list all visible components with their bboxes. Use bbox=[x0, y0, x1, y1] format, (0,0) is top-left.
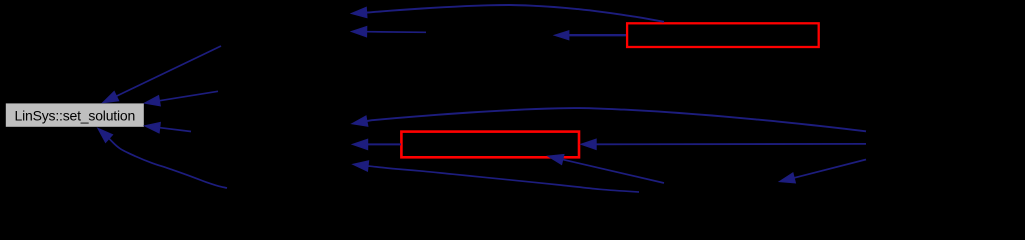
edge H: from red node 2 to middle node bbox=[352, 139, 401, 150]
svg-text:LinSys::set_solution: LinSys::set_solution bbox=[15, 108, 136, 124]
edge K: into red node 2 bottom edge bbox=[548, 154, 665, 183]
red highlighted caller node box 2 bbox=[401, 132, 579, 158]
edge J: from far-right caller into red node 2 bbox=[581, 139, 867, 150]
edge F: short edge to middle-top caller node bbox=[351, 26, 426, 37]
edge G: long arc from far-right caller to middle node bbox=[352, 108, 867, 131]
edge B: caller into LinSys::set_solution top-right corner bbox=[144, 91, 218, 106]
edge C: caller into LinSys::set_solution right edge bbox=[144, 122, 191, 133]
node: LinSys::set_solution (current node, gray) bbox=[6, 103, 144, 126]
edge E: arc from red node 1 to middle caller node bbox=[351, 5, 664, 22]
edge K2: from far-right caller into bottom node bbox=[779, 160, 866, 184]
edge D: caller into LinSys::set_solution bottom edge bbox=[98, 128, 228, 188]
edge I: from bottom-right caller to middle node bbox=[353, 161, 640, 192]
red highlighted caller node box 1 bbox=[627, 23, 819, 47]
edge A: caller into LinSys::set_solution top edge bbox=[102, 46, 221, 103]
edge M: edge from red node 1 left edge bbox=[554, 31, 626, 41]
